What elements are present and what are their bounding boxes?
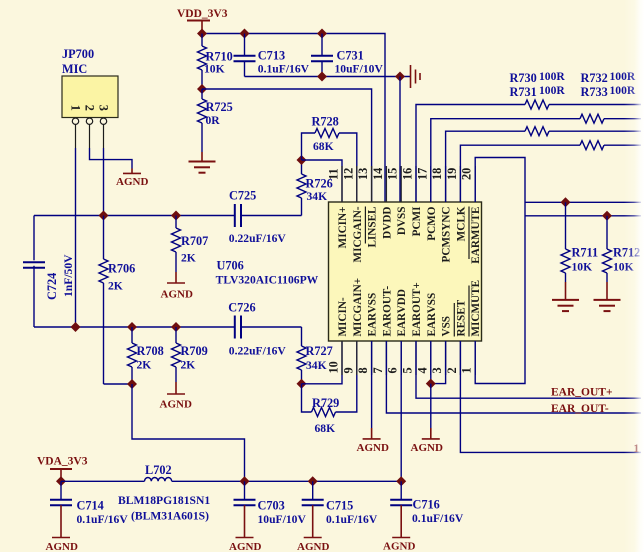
junction pin1/MIC-: [71, 322, 81, 332]
capacitor C703 10uF/10V: [234, 481, 307, 526]
op-amp codec U706 TLV320AIC1106PW body: [329, 202, 482, 341]
svg-text:AGND: AGND: [383, 541, 415, 552]
svg-text:7: 7: [371, 367, 385, 373]
svg-text:10K: 10K: [572, 261, 593, 274]
svg-text:C725: C725: [229, 189, 256, 203]
pin circle 3: [100, 118, 106, 124]
svg-text:PCMSYNC: PCMSYNC: [441, 207, 453, 263]
pin circle 1: [72, 118, 78, 124]
svg-text:PCMI: PCMI: [411, 207, 423, 237]
svg-text:EAR_OUT+: EAR_OUT+: [551, 387, 613, 399]
junction VDD/C731: [317, 29, 327, 39]
svg-text:100R: 100R: [539, 84, 565, 97]
svg-text:R727: R727: [306, 344, 333, 358]
svg-text:MICIN-: MICIN-: [337, 297, 349, 336]
power port AGND (R709): [160, 382, 192, 411]
svg-text:10uF/10V: 10uF/10V: [335, 63, 384, 76]
capacitor C714 0.1uF/16V: [50, 481, 128, 526]
wire VDD rail: [202, 34, 385, 203]
svg-text:R730: R730: [510, 71, 537, 85]
junction R710/R725/LINSEL node: [197, 84, 207, 94]
svg-text:R733: R733: [581, 85, 608, 99]
svg-text:3: 3: [96, 105, 110, 111]
svg-text:AGND: AGND: [411, 442, 443, 454]
resistor R728 68K: [302, 115, 357, 203]
svg-text:EARVDD: EARVDD: [396, 289, 408, 336]
junction pin15/DVSS: [395, 72, 405, 82]
junction VDA/C714: [56, 476, 66, 486]
wire pin 2 RESET to edge: [460, 341, 641, 452]
junction VDD/C713: [240, 29, 250, 39]
svg-text:100R: 100R: [539, 70, 565, 83]
pin circle 2: [86, 118, 92, 124]
svg-text:11: 11: [327, 168, 341, 180]
wire R706 to R708 node: [104, 383, 133, 385]
power port VDA_3V3: [37, 456, 88, 482]
svg-text:R708: R708: [137, 344, 164, 358]
resistor R707 2K: [172, 216, 209, 273]
svg-text:15: 15: [386, 168, 400, 180]
svg-text:1: 1: [68, 105, 82, 111]
svg-text:AGND: AGND: [116, 176, 148, 188]
svg-text:RESET: RESET: [455, 299, 467, 336]
wire node to pin 10 MICIN-: [302, 341, 343, 384]
svg-text:2K: 2K: [181, 252, 196, 265]
pin stubs U706 bottom row (pins 1-10): [342, 341, 475, 375]
svg-text:4: 4: [415, 367, 429, 373]
svg-text:5: 5: [401, 367, 415, 373]
ground (earth) under R725: [189, 152, 216, 173]
resistor R710 10K: [198, 34, 233, 90]
resistor R733 100R + wire pin19 MCLK: [460, 84, 641, 202]
svg-text:LINSEL: LINSEL: [367, 207, 379, 248]
svg-text:16: 16: [401, 168, 415, 180]
capacitor C726 0.22uF/16V: [228, 301, 301, 358]
svg-text:AGND: AGND: [229, 541, 261, 552]
svg-text:MCLK: MCLK: [455, 206, 467, 241]
wire pin 20 EARMUTE to pin 1 MICMUTE: [475, 158, 525, 384]
power port VDD_3V3: [177, 8, 228, 34]
svg-text:EARMUTE: EARMUTE: [470, 207, 482, 264]
svg-text:19: 19: [445, 168, 459, 180]
svg-text:10K: 10K: [204, 63, 225, 76]
svg-text:C716: C716: [413, 498, 440, 512]
svg-text:2K: 2K: [108, 280, 123, 293]
ground (earth) under R711: [552, 282, 579, 311]
svg-text:R707: R707: [181, 234, 208, 248]
svg-text:1: 1: [460, 367, 474, 373]
wire pin 5 EAROUT+ to EAR_OUT+: [416, 341, 641, 398]
junction R708/R706 node: [127, 379, 137, 389]
svg-text:17: 17: [415, 168, 429, 180]
svg-text:PCMO: PCMO: [426, 206, 438, 240]
resistor R731 100R + wire pin18 PCMSYNC: [446, 84, 641, 202]
svg-text:10: 10: [327, 361, 341, 373]
ground (earth) under R712: [594, 282, 621, 311]
resistor R726 34K: [297, 160, 333, 203]
resistor R709 2K: [172, 327, 208, 382]
wire JP700 pin2 to AGND: [89, 124, 91, 148]
svg-text:2K: 2K: [137, 359, 152, 372]
svg-text:EARVSS: EARVSS: [367, 293, 379, 337]
junction pin3/MIC+: [99, 211, 109, 221]
power port AGND (C714): [46, 505, 78, 552]
wire PCMO net to R711: [525, 201, 641, 203]
capacitor C715 0.1uF/16V: [302, 481, 378, 526]
resistor R708 2K: [128, 327, 164, 384]
svg-text:R706: R706: [108, 262, 135, 276]
svg-text:3: 3: [430, 367, 444, 373]
capacitor C724 1nF/50V: [23, 216, 75, 328]
svg-text:EARVSS: EARVSS: [426, 293, 438, 337]
svg-text:C726: C726: [228, 301, 255, 315]
svg-text:EAR_OUT-: EAR_OUT-: [551, 403, 609, 415]
wire JP700 pin3 to MIC+ net: [103, 124, 105, 148]
capacitor C731 10uF/10V: [311, 34, 383, 77]
wire node to pin 13 LINSEL: [202, 89, 372, 202]
svg-text:MICMUTE: MICMUTE: [470, 280, 482, 337]
svg-text:R725: R725: [206, 100, 233, 114]
svg-text:EAROUT+: EAROUT+: [411, 282, 423, 336]
svg-text:AGND: AGND: [46, 541, 78, 552]
svg-text:VDA_3V3: VDA_3V3: [37, 456, 88, 468]
svg-text:0.22uF/16V: 0.22uF/16V: [229, 232, 287, 245]
svg-text:C713: C713: [258, 49, 285, 63]
svg-text:U706: U706: [217, 259, 244, 273]
svg-text:C715: C715: [326, 499, 353, 513]
wire pin 6 EARVDD down to rail: [400, 341, 402, 481]
svg-text:TLV320AIC1106PW: TLV320AIC1106PW: [216, 274, 319, 287]
resistor R727 34K: [297, 327, 333, 384]
junction R707/MIC+: [171, 211, 181, 221]
junction pin4/pin3/AGND: [426, 379, 436, 389]
wire analog rail right: [172, 480, 402, 482]
svg-text:10uF/10V: 10uF/10V: [258, 513, 307, 526]
pin stubs U706 top row (pins 11-20): [342, 166, 475, 202]
svg-text:DVSS: DVSS: [396, 207, 408, 236]
svg-text:8: 8: [356, 367, 370, 373]
junction R708/MIC-: [127, 322, 137, 332]
svg-text:JP700: JP700: [62, 47, 94, 61]
svg-text:R731: R731: [510, 85, 537, 99]
junction R726/R728/pin11: [297, 155, 307, 165]
junction rail/C703: [240, 476, 250, 486]
resistor R730 100R + wire pin16 PCMI: [416, 70, 641, 202]
wire C725 to R726: [301, 198, 303, 216]
svg-text:13: 13: [356, 168, 370, 180]
svg-text:EAROUT-: EAROUT-: [381, 286, 393, 337]
junction R712: [602, 211, 612, 221]
wire pin 4 / pin 3 tie: [431, 341, 446, 384]
svg-text:0R: 0R: [206, 114, 221, 127]
resistor R732 100R + wire pin17 PCMO: [431, 70, 641, 202]
svg-text:68K: 68K: [315, 422, 336, 435]
junction R709/MIC-: [171, 322, 181, 332]
svg-text:2: 2: [82, 105, 96, 111]
wire JP700 pin1 to MIC- net: [75, 124, 77, 148]
svg-text:(BLM31A601S): (BLM31A601S): [131, 510, 209, 523]
svg-text:0.1uF/16V: 0.1uF/16V: [258, 63, 310, 76]
svg-text:BLM18PG181SN1: BLM18PG181SN1: [118, 494, 210, 507]
svg-text:0.1uF/16V: 0.1uF/16V: [326, 513, 378, 526]
connector JP700 MIC: [62, 47, 118, 124]
junction VDD/R710: [197, 29, 207, 39]
junction R727/R729/pin10: [297, 379, 307, 389]
junction rail/C716/pin6: [396, 476, 406, 486]
power port AGND (C716): [383, 505, 415, 552]
resistor R725 0R: [198, 89, 233, 152]
svg-text:C731: C731: [337, 49, 364, 63]
svg-text:VDD_3V3: VDD_3V3: [177, 8, 228, 20]
right edge white fade: [624, 0, 644, 552]
svg-text:R711: R711: [572, 246, 599, 260]
svg-text:2K: 2K: [181, 359, 196, 372]
svg-text:R710: R710: [206, 50, 233, 64]
svg-text:0.1uF/16V: 0.1uF/16V: [412, 512, 464, 525]
power port AGND (mic pin2): [116, 169, 148, 189]
power port AGND (pin4): [411, 384, 443, 454]
svg-text:L702: L702: [145, 463, 172, 477]
junction R711: [561, 197, 571, 207]
wire MIC+ net y215.5: [34, 215, 235, 217]
svg-text:1nF/50V: 1nF/50V: [62, 254, 75, 297]
svg-text:R729: R729: [312, 396, 339, 410]
svg-text:68K: 68K: [313, 140, 334, 153]
svg-text:34K: 34K: [306, 359, 327, 372]
wire analog rail left: [61, 480, 145, 482]
wire pin 7 EAROUT- to EAR_OUT-: [386, 341, 641, 413]
svg-text:DVDD: DVDD: [381, 207, 393, 239]
svg-text:34K: 34K: [307, 190, 328, 203]
ground (earth, sideways) at DVSS: [411, 65, 421, 88]
svg-text:20: 20: [460, 168, 474, 180]
wire DVSS net y76.5: [245, 76, 411, 78]
wire PCMSYNC net to R712: [525, 215, 641, 217]
svg-text:C714: C714: [77, 499, 104, 513]
capacitor C725 0.22uF/16V: [229, 189, 302, 246]
svg-text:2: 2: [445, 367, 459, 373]
svg-text:0.22uF/16V: 0.22uF/16V: [229, 345, 287, 358]
svg-text:VSS: VSS: [441, 316, 453, 337]
wire pin 8 EARVSS to AGND: [371, 341, 373, 428]
svg-text:AGND: AGND: [357, 442, 389, 454]
svg-text:AGND: AGND: [297, 541, 329, 552]
inductor L702 BLM18PG181SN1: [145, 463, 172, 481]
svg-text:0.1uF/16V: 0.1uF/16V: [77, 513, 129, 526]
svg-text:AGND: AGND: [161, 289, 193, 301]
wire pin 15 DVSS drop: [399, 77, 401, 203]
power port AGND (C703): [229, 505, 261, 552]
svg-text:AGND: AGND: [160, 399, 192, 411]
svg-text:18: 18: [430, 168, 444, 180]
resistor R712 10K: [603, 216, 641, 282]
svg-text:MICGAIN+: MICGAIN+: [352, 278, 364, 337]
svg-text:R709: R709: [181, 344, 208, 358]
wire bias node down to rail: [132, 384, 245, 481]
resistor R706 2K: [99, 216, 135, 385]
junction C731/DVSS: [317, 72, 327, 82]
wire node to pin 11 MICIN+: [302, 160, 343, 202]
svg-text:MIC: MIC: [62, 62, 87, 76]
svg-text:R732: R732: [581, 71, 608, 85]
resistor R729 68K: [302, 341, 357, 435]
power port AGND (R707): [161, 272, 193, 301]
svg-text:MICIN+: MICIN+: [337, 207, 349, 249]
svg-text:12: 12: [341, 168, 355, 180]
resistor R711 10K: [561, 202, 598, 282]
svg-text:9: 9: [341, 367, 355, 373]
svg-text:6: 6: [386, 367, 400, 373]
power port AGND (C715): [297, 505, 329, 552]
power port AGND (pin8): [357, 428, 389, 454]
junction rail/C715: [308, 476, 318, 486]
capacitor C713 0.1uF/16V: [234, 34, 310, 77]
svg-text:C724: C724: [45, 273, 59, 300]
svg-text:14: 14: [371, 168, 385, 180]
svg-text:C703: C703: [258, 499, 285, 513]
svg-text:R728: R728: [312, 115, 339, 129]
capacitor C716 0.1uF/16V: [390, 481, 464, 525]
svg-text:MICGAIN-: MICGAIN-: [352, 206, 364, 262]
wire MIC- net y327: [34, 326, 235, 328]
